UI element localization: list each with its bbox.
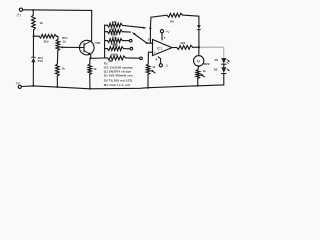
wire [223, 64, 225, 67]
node inverting input junction [149, 27, 151, 29]
wire inverting stub [146, 42, 153, 44]
wire feedback up [150, 15, 166, 28]
node rail junction ZD1 [32, 85, 34, 87]
svg-text:D1 5V6 400mW zen.: D1 5V6 400mW zen. [104, 74, 134, 78]
svg-text:1k: 1k [40, 21, 44, 25]
wire [198, 30, 200, 47]
switch S1 contact row5 [126, 57, 140, 59]
node meter bottom junction [198, 65, 200, 67]
svg-text:7: 7 [164, 36, 166, 40]
wire ladder bus [104, 25, 106, 58]
op-amp IC1 [153, 40, 173, 56]
terminal +V supply pin7 [160, 30, 163, 33]
svg-text:1k: 1k [63, 40, 67, 44]
svg-text:RV2: RV2 [204, 62, 210, 66]
svg-text:TR1: TR1 [95, 41, 101, 45]
resistor R4 1k [56, 64, 60, 76]
svg-text:D2 TIL209 red LED.: D2 TIL209 red LED. [104, 79, 133, 83]
wire emitter [91, 55, 105, 59]
svg-text:1k: 1k [203, 69, 207, 73]
zener diode ZD1 5V6 [31, 58, 35, 63]
wire [193, 46, 199, 48]
node junction top of R1 [32, 9, 34, 11]
svg-text:2: 2 [148, 37, 150, 41]
wire inverting input down [149, 28, 151, 43]
node rail junction RV3 [147, 87, 149, 89]
preset RV3 10k [146, 64, 150, 75]
svg-text:+V: +V [165, 30, 170, 34]
wire row1 to node [122, 25, 144, 27]
node rail junction RV2 [197, 85, 199, 87]
node rail junction R5 [89, 88, 91, 90]
wire [32, 10, 34, 15]
wire non-inverting stub [148, 52, 152, 64]
switch S1 contact row3 [122, 40, 129, 42]
resistor range R4 (S1 position 2) [105, 31, 108, 33]
LED D1 [221, 58, 226, 64]
meter M1 [198, 47, 200, 55]
resistor R9 feedback [167, 13, 183, 17]
resistor R5 emitter 1k [89, 58, 91, 64]
terminal (+) input [19, 8, 22, 11]
potentiometer RV1 1k [56, 39, 60, 50]
resistor range R7 (S1 position 5) [105, 57, 108, 59]
switch S1 wiper [134, 34, 147, 43]
diode D1 [197, 25, 201, 29]
wire [183, 15, 199, 25]
node rail junction R4 [56, 86, 58, 88]
resistor range R3 (S1 position 1) [105, 24, 108, 26]
wire [56, 51, 58, 65]
wire [147, 75, 149, 88]
switch S1 contact row4 [124, 48, 131, 50]
svg-text:0V: 0V [16, 82, 21, 86]
wire [33, 30, 35, 36]
LED D2 [221, 67, 226, 73]
node junction R2/ZD1 [33, 35, 35, 37]
node output junction [198, 46, 200, 48]
svg-text:3k3: 3k3 [180, 41, 185, 45]
svg-text:1k: 1k [152, 65, 156, 69]
resistor range R5 (S1 position 3) [105, 40, 108, 42]
svg-text:D1: D1 [215, 58, 219, 62]
svg-text:10k: 10k [112, 20, 117, 24]
svg-text:1k: 1k [93, 67, 97, 71]
preset RV2 1k [197, 66, 200, 69]
svg-text:100k: 100k [111, 53, 118, 57]
svg-text:1M: 1M [108, 59, 113, 63]
svg-text:R9: R9 [170, 19, 174, 23]
wire [197, 79, 199, 86]
wire [32, 62, 34, 86]
resistor R1 1k [32, 15, 36, 30]
wire 0V rail [22, 85, 224, 89]
wire [223, 74, 225, 85]
transistor TR1 [80, 40, 95, 55]
svg-text:4: 4 [155, 58, 157, 62]
svg-text:3k3: 3k3 [44, 39, 49, 43]
wire row2 to contact [122, 31, 130, 33]
svg-text:(+): (+) [17, 13, 21, 17]
wiper arrow of RV1 to TR1 base [62, 46, 84, 48]
svg-text:M: M [197, 58, 200, 63]
wire [56, 76, 58, 87]
terminal -V supply pin4 [158, 57, 161, 64]
terminal 0V [18, 85, 21, 88]
svg-text:D2: D2 [214, 67, 218, 71]
node emitter junction [89, 57, 91, 59]
svg-text:IC1: IC1 [157, 47, 163, 51]
wire zener branch [32, 36, 34, 57]
svg-text:M1 1mA f.s.d. mtr: M1 1mA f.s.d. mtr [104, 83, 131, 87]
svg-text:5V6: 5V6 [38, 59, 44, 63]
wire to LED branch (faint) [200, 46, 224, 48]
resistor R10 3k3 output [172, 47, 177, 49]
wire top rail [23, 9, 92, 12]
resistor range R6 (S1 position 4) [105, 48, 108, 50]
wire collector [90, 10, 92, 40]
svg-text:4k7: 4k7 [113, 43, 118, 47]
svg-text:10k: 10k [112, 35, 117, 39]
resistor R2 3k3 [34, 35, 40, 37]
svg-text:1k: 1k [62, 67, 66, 71]
wire [89, 75, 91, 89]
wire [57, 36, 59, 39]
